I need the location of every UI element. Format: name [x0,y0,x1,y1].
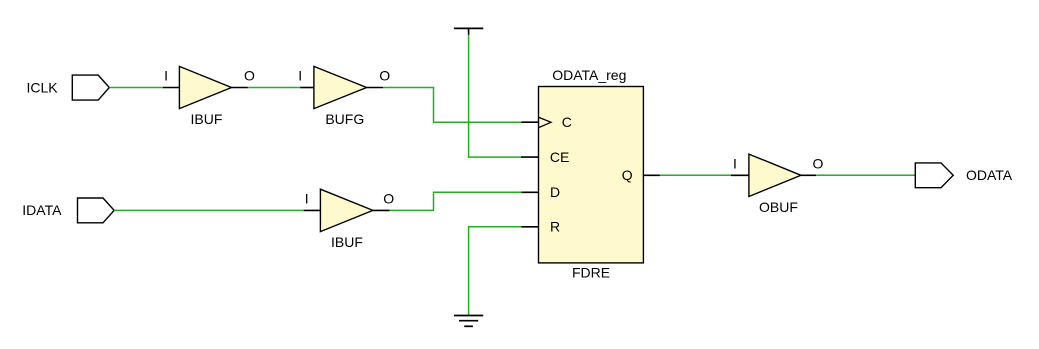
svg-text:ODATA_reg: ODATA_reg [552,67,626,83]
pin OBUF.I stub [731,174,749,176]
svg-text:CE: CE [550,149,569,165]
svg-text:IBUF: IBUF [331,234,363,250]
svg-text:ODATA: ODATA [966,167,1013,183]
svg-text:O: O [383,191,394,207]
pin IBUF.I stub [163,87,180,89]
pin IBUF.O stub [232,87,248,89]
svg-text:I: I [298,68,302,84]
buffer IBUF (data input buffer) [320,189,373,231]
svg-text:BUFG: BUFG [325,111,364,127]
wire IDATA net (port to IBUF input) [114,209,304,211]
svg-text:I: I [733,156,737,172]
svg-text:OBUF: OBUF [759,199,798,215]
wire data net IBUF2.O to FDRE.D [390,192,522,210]
svg-text:O: O [379,68,390,84]
pin IBUF2.O stub [373,209,390,211]
flip-flop FDRE ODATA_reg [539,87,644,263]
pin BUFG.O stub [367,87,384,89]
ground symbol [454,316,483,327]
svg-text:O: O [813,156,824,172]
input port IDATA [78,198,115,223]
wire clock net BUFG.O to FDRE.C [383,88,521,123]
power VCC symbol [454,27,483,29]
svg-text:I: I [164,68,168,84]
wire Q net FDRE.Q to OBUF.I [660,174,731,176]
svg-text:IBUF: IBUF [191,111,223,127]
svg-text:I: I [305,191,309,207]
wire reset net ground to FDRE.R [469,227,522,316]
svg-text:C: C [562,114,572,130]
wire VCC net to FDRE.CE [469,35,521,157]
pin FDRE.D stub [521,191,538,193]
wire ICLK net (port to IBUF input) [109,87,163,89]
pin FDRE.R stub [521,226,538,228]
pin IBUF2.I stub [304,209,321,211]
pin FDRE.C stub [521,121,538,123]
svg-text:IDATA: IDATA [22,202,62,218]
svg-text:R: R [550,219,560,235]
svg-text:ICLK: ICLK [27,79,59,95]
buffer OBUF (output buffer) [749,154,801,196]
wire IBUF.O to BUFG.I [248,87,300,89]
pin OBUF.O stub [801,174,816,176]
pin FDRE.CE stub [521,156,539,158]
input port ICLK [72,75,109,100]
buffer BUFG (global clock buffer) [314,66,367,108]
buffer IBUF (clock input buffer) [179,66,231,108]
svg-text:Q: Q [622,167,633,183]
wire ODATA net OBUF.O to port [816,174,915,176]
svg-text:O: O [244,68,255,84]
svg-text:FDRE: FDRE [572,265,610,281]
output port ODATA [915,163,953,188]
pin BUFG.I stub [300,87,314,89]
clock marker on pin C [539,117,551,127]
pin FDRE.Q stub [643,174,660,176]
svg-text:D: D [550,184,560,200]
